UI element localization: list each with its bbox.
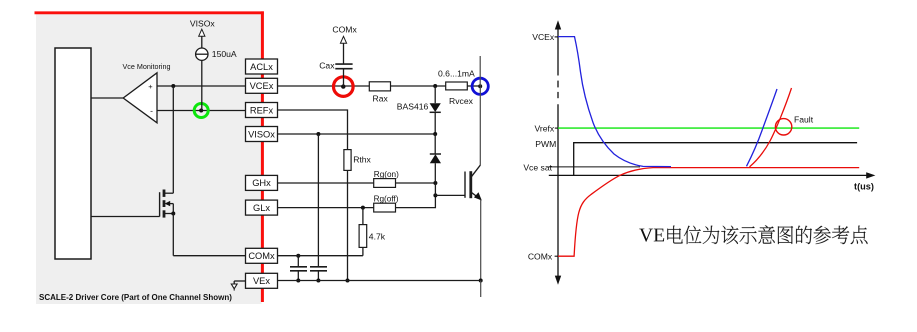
- svg-text:COMx: COMx: [248, 251, 275, 261]
- svg-text:-: -: [150, 106, 153, 116]
- resistor R 4.7k: [359, 208, 367, 256]
- wire comparator minus input to REFx: [157, 110, 246, 112]
- wire VISOx node to D2: [434, 134, 436, 154]
- wire Rvcex to collector node: [467, 85, 480, 87]
- red boundary top: [35, 11, 264, 14]
- tick VCEx: [555, 36, 558, 38]
- pin box ACLx: [246, 59, 278, 74]
- svg-text:COMx: COMx: [332, 25, 357, 35]
- node junction GLx 4.7k: [361, 206, 365, 210]
- pin box VCEx: [246, 78, 278, 93]
- tick Vrefx: [555, 127, 558, 129]
- svg-text:Vce sat: Vce sat: [523, 162, 552, 172]
- resistor Rvcex: [446, 82, 468, 90]
- wire comparator output: [91, 97, 123, 99]
- capacitor C2: [310, 267, 327, 281]
- wire current source to REFx node: [201, 60, 203, 110]
- capacitor C1: [290, 256, 307, 281]
- wire VCEx node down to MOSFET drain: [172, 86, 174, 193]
- wire comparator plus input to VCEx: [157, 85, 246, 87]
- node collector blue circle marker: [472, 78, 488, 94]
- svg-text:+: +: [148, 82, 153, 91]
- node junction VCEx diode column: [433, 84, 437, 88]
- svg-text:Cax: Cax: [319, 61, 335, 71]
- node junction at VCEx sense: [171, 84, 175, 88]
- svg-text:BAS416: BAS416: [397, 102, 429, 112]
- wire Rax to diode column: [391, 85, 446, 87]
- node junction COMx cap branch: [296, 254, 300, 258]
- svg-text:REFx: REFx: [250, 105, 274, 115]
- svg-text:t(us): t(us): [854, 182, 874, 192]
- tick COMx: [555, 255, 558, 257]
- wire source to COMx pin: [173, 255, 245, 257]
- caption VE reference note (Chinese): [639, 225, 867, 244]
- wire gate from driver block: [91, 216, 160, 218]
- terminal arrow COMx top: [340, 36, 346, 43]
- wire MOSFET source down: [172, 214, 174, 256]
- svg-text:150uA: 150uA: [212, 49, 237, 59]
- wire Rg(on) to gate column: [396, 182, 436, 184]
- wire VISOx to diode column: [278, 133, 436, 135]
- svg-text:0.6...1mA: 0.6...1mA: [438, 69, 475, 79]
- transistor IGBT: [465, 165, 482, 201]
- wire BAS416 to VISOx node: [434, 112, 436, 134]
- node junction gate column GHx: [433, 181, 437, 185]
- svg-text:Rax: Rax: [373, 94, 389, 104]
- node junction diode column VISOx: [433, 132, 437, 136]
- svg-text:GLx: GLx: [253, 203, 270, 213]
- terminal arrow VISOx: [199, 29, 205, 36]
- pin box GHx: [246, 175, 278, 190]
- wire VCEx node to BAS416: [434, 86, 436, 103]
- resistor Rax: [369, 82, 390, 91]
- wire GLx to Rg(off): [278, 207, 374, 209]
- svg-text:COMx: COMx: [528, 252, 553, 262]
- wire VEx rail: [278, 280, 481, 282]
- svg-text:VEx: VEx: [253, 276, 270, 286]
- wire VCEx to Rax: [278, 85, 370, 87]
- current source I1 150uA: [196, 48, 208, 60]
- wire IGBT emitter to VEx rail: [480, 200, 482, 281]
- node junction emitter VEx: [479, 279, 483, 283]
- wire COMx rail: [278, 255, 363, 257]
- wire IGBT collector: [479, 86, 481, 165]
- wire gate column to IGBT gate: [435, 194, 465, 196]
- wire VISOx arrow to current source: [201, 36, 203, 48]
- wire Rthx to VEx rail: [347, 170, 349, 280]
- pin box GLx: [246, 200, 278, 215]
- node REFx green circle marker: [194, 104, 208, 118]
- wire REFx to Rthx: [278, 110, 348, 150]
- node junction MOSFET source: [171, 212, 175, 216]
- svg-text:VCEx: VCEx: [250, 81, 274, 91]
- wire GHx to Rg(on): [278, 182, 374, 184]
- trace VCEx red falling: [558, 168, 859, 257]
- level line Vce sat: [549, 166, 640, 168]
- wire Rg(off) to gate column: [396, 195, 436, 207]
- svg-text:Vce Monitoring: Vce Monitoring: [123, 62, 171, 71]
- pin box VEx: [246, 273, 278, 288]
- driver core block: [55, 48, 91, 259]
- svg-text:ACLx: ACLx: [250, 62, 273, 72]
- pin box VISOx: [246, 127, 278, 142]
- svg-text:Vrefx: Vrefx: [534, 123, 554, 133]
- svg-text:VCEx: VCEx: [532, 32, 555, 42]
- node junction gate tee: [433, 193, 437, 197]
- node junction C1 VEx: [296, 279, 300, 283]
- ground symbol at VEx: [231, 281, 245, 291]
- trace VCEx blue falling: [558, 37, 671, 167]
- node Cax red circle marker: [334, 77, 354, 97]
- svg-text:Rg(on): Rg(on): [374, 170, 399, 179]
- trace Vrefx green line: [558, 127, 859, 129]
- capacitor Cax: [335, 43, 352, 86]
- svg-text:Rthx: Rthx: [353, 154, 371, 164]
- resistor Rg(off): [374, 203, 396, 212]
- transistor Q1 MOSFET: [160, 190, 174, 218]
- y-axis: [555, 20, 561, 285]
- wire emitter stub down: [480, 281, 482, 298]
- wire collector stub up: [479, 56, 481, 86]
- node junction VISOx cap branch: [316, 132, 320, 136]
- driver core shaded region: [36, 14, 262, 305]
- trace PWM: [574, 143, 857, 176]
- node junction REFx: [199, 109, 203, 113]
- trace VCEx red fault rise: [750, 88, 792, 167]
- op-amp U1 comparator Vce monitoring: [123, 73, 157, 123]
- pin box COMx: [246, 248, 278, 263]
- resistor Rthx: [344, 150, 351, 171]
- svg-text:GHx: GHx: [252, 178, 271, 188]
- wire D2 to GHx node: [434, 163, 436, 183]
- wire GHx node to gate tee: [434, 183, 436, 195]
- node junction Cax: [341, 84, 345, 88]
- node junction collector: [478, 84, 482, 88]
- trace VCEx blue fault rise: [747, 89, 778, 166]
- svg-text:VISOx: VISOx: [190, 19, 216, 29]
- x-axis t: [549, 172, 876, 178]
- resistor Rg(on): [374, 179, 396, 188]
- svg-text:Rg(off): Rg(off): [374, 195, 399, 204]
- node junction C2 VEx: [316, 279, 320, 283]
- red boundary right: [261, 11, 264, 302]
- diode D2: [430, 154, 441, 163]
- node junction Rthx VEx: [346, 279, 350, 283]
- svg-text:VISOx: VISOx: [248, 129, 275, 139]
- svg-text:Rvcex: Rvcex: [449, 96, 474, 106]
- pin box REFx: [246, 103, 278, 118]
- wire VISOx branch down to C2: [317, 134, 319, 267]
- diode BAS416: [430, 103, 441, 112]
- svg-text:4.7k: 4.7k: [369, 231, 386, 241]
- svg-text:SCALE-2 Driver Core (Part of O: SCALE-2 Driver Core (Part of One Channel…: [39, 293, 232, 302]
- svg-text:PWM: PWM: [535, 139, 556, 149]
- svg-text:Fault: Fault: [794, 114, 814, 124]
- fault circle marker: [775, 119, 791, 135]
